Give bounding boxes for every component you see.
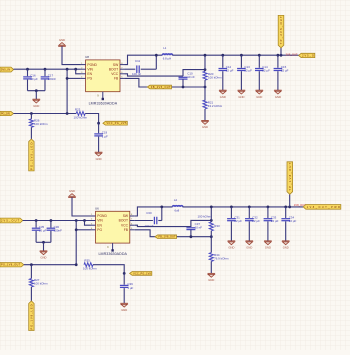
svg-text:C30: C30 bbox=[146, 211, 152, 215]
node FB-divider mid b bbox=[210, 235, 213, 238]
svg-text:22 µF: 22 µF bbox=[289, 219, 297, 223]
svg-text:VCC_PG_1V8: VCC_PG_1V8 bbox=[133, 272, 151, 275]
svg-text:LMR33630ADDA: LMR33630ADDA bbox=[98, 252, 127, 256]
node SW rail - boot bbox=[155, 54, 158, 57]
pin 2 VIN bbox=[81, 68, 86, 70]
capacitor C36 220nF input bbox=[50, 221, 52, 228]
svg-text:VCC: VCC bbox=[121, 223, 129, 227]
svg-text:R35: R35 bbox=[84, 259, 90, 263]
capacitor C30 100nF boot bbox=[135, 220, 153, 222]
port vertical below R27 b bbox=[29, 301, 34, 331]
ground under C13 bbox=[238, 89, 246, 91]
svg-text:GND: GND bbox=[121, 308, 127, 312]
svg-text:10 µF: 10 µF bbox=[30, 77, 38, 81]
wire PG pin horizontal b bbox=[76, 229, 90, 231]
ground under C15 bbox=[274, 89, 282, 91]
svg-text:TP_2V5_OUT: TP_2V5_OUT bbox=[279, 16, 283, 44]
pin 6 VCC bbox=[130, 224, 135, 226]
capacitor C34 22uF output b bbox=[285, 207, 287, 218]
svg-text:2V5_O: 2V5_O bbox=[302, 54, 314, 57]
svg-text:U6: U6 bbox=[95, 207, 99, 211]
node rail-R20 bbox=[204, 54, 207, 57]
svg-text:100 kOhm: 100 kOhm bbox=[208, 75, 222, 79]
svg-text:22 µF: 22 µF bbox=[262, 69, 270, 73]
node rail to port tap b bbox=[288, 206, 291, 209]
ground under C34 bbox=[282, 240, 290, 242]
svg-text:GND: GND bbox=[283, 246, 289, 250]
capacitor C31 22uF output b bbox=[230, 207, 232, 218]
svg-text:PG_2V5: PG_2V5 bbox=[1, 113, 11, 116]
svg-text:GND: GND bbox=[228, 246, 234, 250]
svg-text:5V0_IN: 5V0_IN bbox=[1, 69, 10, 72]
wire stub to GND5 bbox=[43, 242, 45, 251]
svg-text:PG_2V5_LED: PG_2V5_LED bbox=[29, 143, 33, 170]
svg-text:2V5_OUT: 2V5_OUT bbox=[1, 220, 20, 223]
capacitor C13 22uF output bbox=[240, 55, 242, 68]
resistor R20 100kOhm upper divider bbox=[203, 71, 207, 80]
wire PG pin horizontal bbox=[67, 77, 81, 79]
node FB-divider mid bbox=[204, 86, 207, 89]
port vertical below R26 bbox=[29, 139, 34, 171]
net label FB (yellow) on FB wire bbox=[147, 85, 171, 89]
svg-text:22 µF: 22 µF bbox=[252, 219, 260, 223]
wire FB pin to divider b bbox=[135, 230, 212, 237]
svg-text:43.2 kOhm: 43.2 kOhm bbox=[208, 104, 223, 108]
pin 4 PG bbox=[91, 229, 96, 231]
svg-text:1 µF: 1 µF bbox=[127, 286, 133, 290]
pin 5 FB bbox=[130, 229, 135, 231]
svg-text:GND: GND bbox=[275, 95, 281, 99]
capacitor C12 22uF output bbox=[222, 55, 224, 68]
svg-text:FB_1V8_OUT: FB_1V8_OUT bbox=[159, 236, 177, 239]
svg-text:100 kOhm: 100 kOhm bbox=[34, 282, 48, 286]
port vertical 2V5 supply flag bbox=[278, 15, 284, 47]
svg-text:6u8: 6u8 bbox=[175, 208, 180, 212]
capacitor C39 1uF on VCC_PG b bbox=[123, 273, 125, 284]
wire VCC pin to C10 top bbox=[125, 74, 183, 76]
pin 9 PAD bbox=[102, 92, 104, 99]
resistor R27 100kOhm pulldown b bbox=[30, 265, 32, 279]
pin 7 BOOT bbox=[120, 68, 125, 70]
svg-text:BOOT: BOOT bbox=[119, 219, 128, 223]
port P3 input net label (left, bottom circuit) bbox=[0, 218, 23, 223]
node rail-C34 bbox=[284, 206, 287, 209]
capacitor C10 10nF feedforward bbox=[179, 76, 188, 78]
wire joining C16 C17 bottoms bbox=[28, 90, 46, 92]
node rail-C13 bbox=[240, 54, 243, 57]
wire VCC pin to C37 top b bbox=[135, 225, 191, 226]
ground under C32 bbox=[246, 240, 254, 242]
resistor R23 100kOhm series PG bbox=[76, 112, 85, 116]
node VIN-EN tap b bbox=[83, 219, 86, 222]
wire GND6 to PGND pin b bbox=[72, 197, 91, 216]
svg-text:C11: C11 bbox=[135, 59, 141, 63]
wire up to vertical port b bbox=[289, 194, 291, 207]
svg-text:100 kOhm: 100 kOhm bbox=[34, 122, 48, 126]
pin 5 FB bbox=[120, 77, 125, 79]
svg-text:22 µF: 22 µF bbox=[234, 219, 242, 223]
ground under C33 bbox=[264, 240, 272, 242]
node cap-gnd junction b bbox=[42, 241, 45, 244]
node rail-C32 bbox=[248, 206, 251, 209]
svg-text:PG_1V8_OUT: PG_1V8_OUT bbox=[1, 264, 21, 267]
node PG-R26 bbox=[30, 112, 33, 115]
wire C37 top branch to divider b bbox=[191, 220, 211, 227]
pin 4 PG bbox=[81, 77, 86, 79]
svg-text:220nF: 220nF bbox=[54, 228, 63, 232]
svg-text:GND: GND bbox=[41, 256, 47, 260]
op-amp U8 regulator LMR33630ADDA bbox=[86, 60, 120, 92]
pin 8 SW bbox=[120, 64, 125, 66]
node VCC_PG bbox=[97, 122, 100, 125]
svg-text:220nF: 220nF bbox=[48, 77, 57, 81]
wire PG rail b bbox=[24, 264, 76, 266]
port output net label right bbox=[299, 53, 315, 57]
svg-text:GND: GND bbox=[208, 278, 214, 282]
pin 6 VCC bbox=[120, 73, 125, 75]
ground GND6 above IC b bbox=[68, 196, 76, 198]
port P2 PG net label (left) bbox=[0, 111, 14, 115]
wire FB pin to divider bbox=[125, 78, 205, 87]
svg-text:GND: GND bbox=[256, 95, 262, 99]
svg-text:6.8 µH: 6.8 µH bbox=[163, 57, 171, 61]
svg-text:100 kOhm: 100 kOhm bbox=[198, 215, 212, 219]
svg-text:PGND: PGND bbox=[87, 63, 97, 67]
node PG tee b bbox=[75, 228, 78, 231]
port output net label right b bbox=[303, 205, 341, 210]
svg-text:22 µF: 22 µF bbox=[244, 69, 252, 73]
svg-text:10 nF: 10 nF bbox=[187, 75, 195, 79]
svg-text:TP_1V8_OUT: TP_1V8_OUT bbox=[288, 162, 292, 190]
svg-text:R23: R23 bbox=[75, 107, 81, 111]
svg-text:10 µF: 10 µF bbox=[39, 228, 47, 232]
resistor R21 43.2kOhm lower divider bbox=[204, 87, 206, 101]
ground GND2 above IC bbox=[58, 45, 66, 47]
net label VCC_PG (yellow) bbox=[103, 121, 127, 125]
wire output rail bottom circuit bbox=[183, 206, 304, 208]
pin 1 PGND bbox=[91, 215, 96, 217]
node cap-gnd junction bbox=[35, 89, 38, 92]
pin 1 PGND bbox=[81, 64, 86, 66]
pin 8 SW bbox=[130, 215, 135, 217]
wire PG tap vertical b bbox=[75, 221, 77, 265]
node divider top bbox=[204, 68, 207, 71]
capacitor C33 22uF output b bbox=[267, 207, 269, 218]
node VIN-PG tap b bbox=[75, 219, 78, 222]
port vertical 1V8 supply flag bbox=[287, 162, 293, 195]
wire joining C35 C36 bottoms bbox=[36, 241, 51, 243]
svg-text:2V5_OUT: 2V5_OUT bbox=[286, 52, 298, 56]
ground under C31 bbox=[228, 240, 236, 242]
node PG-R27 bbox=[30, 263, 33, 266]
inductor L1 6.8uH bbox=[162, 54, 172, 55]
svg-text:GND: GND bbox=[202, 125, 208, 129]
wire VIN rail top bbox=[14, 68, 81, 70]
svg-text:GND: GND bbox=[69, 189, 75, 193]
svg-text:VCC: VCC bbox=[111, 72, 119, 76]
node FB-C10 bbox=[182, 86, 185, 89]
wire GND2 to PGND pin bbox=[62, 46, 81, 64]
node SW rail - boot b bbox=[160, 206, 163, 209]
wire rail to R20 bbox=[204, 55, 206, 71]
svg-text:GND: GND bbox=[96, 157, 102, 161]
svg-text:FB_2V5_OUT: FB_2V5_OUT bbox=[151, 86, 171, 89]
svg-text:GND: GND bbox=[220, 95, 226, 99]
node FB-C37 bbox=[190, 235, 193, 238]
svg-text:SW: SW bbox=[113, 63, 119, 67]
node rail-C15 bbox=[277, 54, 280, 57]
ground GND1 under input caps bbox=[33, 98, 41, 100]
svg-text:1 µF: 1 µF bbox=[102, 135, 108, 139]
node VIN-C16 bbox=[26, 68, 29, 71]
svg-text:VIN: VIN bbox=[87, 67, 93, 71]
capacitor C11 100nF boot bbox=[125, 68, 135, 70]
svg-text:22 µF: 22 µF bbox=[271, 219, 279, 223]
wire R23 to VCC_PG node bbox=[85, 114, 98, 124]
ground GND7 under R34 bbox=[208, 272, 216, 274]
pin 3 EN bbox=[81, 73, 86, 75]
node rail to port tap bbox=[280, 54, 283, 57]
svg-text:PG: PG bbox=[87, 77, 92, 81]
node VIN-EN tap bbox=[74, 68, 77, 71]
node PG-vert bbox=[66, 112, 69, 115]
ground GND4 under C19 bbox=[95, 151, 103, 153]
svg-text:100 kOhm: 100 kOhm bbox=[83, 267, 97, 271]
svg-text:U8: U8 bbox=[85, 55, 89, 59]
svg-text:76.9 kOhm: 76.9 kOhm bbox=[214, 256, 229, 260]
ground GND3 under R21 bbox=[201, 120, 209, 122]
port P4 PG net label (left) b bbox=[0, 263, 24, 267]
op-amp U6 regulator LMR33630ADDA bbox=[96, 211, 130, 243]
wire up to vertical port bbox=[280, 48, 282, 55]
node PG tee bbox=[66, 77, 69, 80]
wire boot cap up to SW rail b bbox=[161, 207, 163, 221]
node rail-C12 bbox=[221, 54, 224, 57]
svg-text:22 µF: 22 µF bbox=[226, 69, 234, 73]
port P1 input net label (left, top circuit) bbox=[0, 67, 14, 72]
node rail-R33 bbox=[210, 206, 213, 209]
wire SW pin up to switch rail bbox=[125, 55, 162, 64]
svg-text:PG: PG bbox=[97, 228, 102, 232]
inductor L2 6u8 bbox=[173, 206, 183, 207]
svg-text:EN: EN bbox=[97, 223, 102, 227]
node rail-C31 bbox=[230, 206, 233, 209]
wire EN tap vertical bbox=[76, 69, 81, 74]
wire C10 top branch to divider bbox=[183, 70, 205, 77]
wire boot cap up to SW rail bbox=[155, 55, 157, 69]
svg-text:L1: L1 bbox=[163, 46, 167, 50]
node VIN-C35 bbox=[35, 219, 38, 222]
node rail-C33 bbox=[267, 206, 270, 209]
pin 2 VIN bbox=[91, 220, 96, 222]
wire R35 to VCC_PG node b bbox=[93, 265, 124, 274]
resistor R34 76.9kOhm lower divider b bbox=[210, 237, 212, 253]
net label VCC_PG b (yellow) bbox=[130, 272, 152, 276]
svg-text:PGND: PGND bbox=[97, 214, 107, 218]
svg-text:PG_1V8_LED: PG_1V8_LED bbox=[29, 304, 33, 329]
svg-text:EN: EN bbox=[87, 72, 92, 76]
svg-text:VIN: VIN bbox=[97, 219, 103, 223]
pin 9 PAD bbox=[112, 243, 114, 250]
node divider top b bbox=[210, 219, 213, 222]
svg-text:10 nF: 10 nF bbox=[195, 225, 203, 229]
wire EN tap vertical b bbox=[85, 221, 91, 226]
svg-text:GND: GND bbox=[33, 104, 39, 108]
pin 3 EN bbox=[91, 224, 96, 226]
net label FB b (yellow) bbox=[155, 235, 177, 239]
svg-text:L2: L2 bbox=[174, 198, 178, 202]
wire output rail top bbox=[172, 54, 298, 56]
capacitor C19 1uF on VCC_PG bbox=[98, 123, 100, 133]
svg-text:VCC_PG_2V5: VCC_PG_2V5 bbox=[106, 122, 127, 125]
svg-text:LMR33630ADDA: LMR33630ADDA bbox=[89, 102, 118, 106]
ground under C14 bbox=[256, 89, 264, 91]
ground GND5 under input caps b bbox=[40, 250, 48, 252]
svg-text:BOOT: BOOT bbox=[109, 67, 118, 71]
capacitor C15 22uF output bbox=[277, 55, 279, 68]
node VCC_PG b bbox=[123, 272, 126, 275]
svg-text:SW: SW bbox=[123, 214, 129, 218]
capacitor C16 10uF input bbox=[27, 69, 29, 76]
capacitor C14 22uF output bbox=[258, 55, 260, 68]
capacitor C17 220nF input bbox=[44, 69, 46, 76]
node VIN-PG tap bbox=[66, 68, 69, 71]
node rail-C14 bbox=[258, 54, 261, 57]
wire PG tap vertical bbox=[66, 69, 68, 113]
svg-text:22 µF: 22 µF bbox=[281, 69, 289, 73]
resistor R35 100kOhm series PG b bbox=[84, 263, 93, 267]
svg-text:100 kOhm: 100 kOhm bbox=[74, 115, 88, 119]
ground GND8 under C39 bbox=[120, 302, 128, 304]
node VIN-C17 bbox=[44, 68, 47, 71]
svg-text:R33: R33 bbox=[214, 224, 220, 228]
svg-text:GND: GND bbox=[265, 246, 271, 250]
wire VIN rail bottom circuit bbox=[23, 220, 91, 222]
ground under C12 bbox=[219, 89, 227, 91]
wire PG rail bbox=[14, 113, 77, 115]
pin 7 BOOT bbox=[130, 220, 135, 222]
resistor R26 100kOhm pulldown bbox=[30, 114, 32, 119]
node VIN-C36 bbox=[50, 219, 53, 222]
svg-text:GND: GND bbox=[59, 38, 65, 42]
capacitor C37 10nF feedforward bbox=[186, 227, 195, 229]
node PG-vert b bbox=[75, 263, 78, 266]
capacitor C35 10uF input bbox=[35, 221, 37, 228]
wire stub to GND1 bbox=[35, 91, 37, 100]
capacitor C32 22uF output b bbox=[248, 207, 250, 218]
wire SW pin up to switch rail b bbox=[135, 207, 173, 216]
svg-text:GND: GND bbox=[238, 95, 244, 99]
svg-text:GND: GND bbox=[246, 246, 252, 250]
wire rail to R33 bbox=[210, 207, 212, 222]
svg-text:100 nF: 100 nF bbox=[132, 72, 141, 76]
resistor R33 100kOhm upper divider b bbox=[209, 222, 213, 231]
